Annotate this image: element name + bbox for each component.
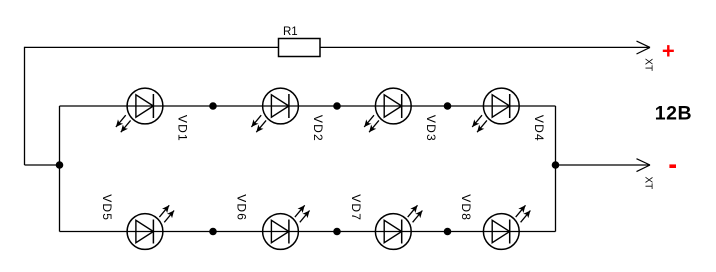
junction top c xyxy=(444,102,452,110)
junction bottom b xyxy=(333,228,341,236)
label minus xyxy=(669,164,676,168)
wire left bus xyxy=(59,106,61,232)
svg-text:VD5: VD5 xyxy=(100,194,114,221)
wire bottom row xyxy=(60,231,556,233)
svg-text:XT: XT xyxy=(643,177,654,190)
svg-text:+: + xyxy=(662,38,675,63)
LED VD6 xyxy=(263,205,310,249)
terminal XT minus arrow xyxy=(637,159,651,172)
wire right bus xyxy=(555,106,557,232)
LED VD1 xyxy=(116,88,163,132)
wire middle left xyxy=(25,164,60,166)
svg-text:VD8: VD8 xyxy=(459,194,473,221)
terminal XT plus arrow xyxy=(637,41,651,54)
LED VD4 xyxy=(472,88,519,132)
resistor R1 xyxy=(279,39,321,57)
svg-text:VD6: VD6 xyxy=(234,194,248,221)
LED VD2 xyxy=(251,88,298,132)
svg-text:XT: XT xyxy=(642,58,653,71)
svg-text:12B: 12B xyxy=(655,102,692,124)
svg-text:VD3: VD3 xyxy=(424,115,438,142)
wire left vertical xyxy=(24,47,26,165)
junction top b xyxy=(333,102,341,110)
svg-text:VD7: VD7 xyxy=(349,194,363,221)
wire top right segment xyxy=(320,46,650,48)
wire middle right xyxy=(556,164,651,166)
LED VD5 xyxy=(127,205,174,249)
svg-text:R1: R1 xyxy=(283,26,298,38)
svg-text:VD1: VD1 xyxy=(176,115,190,142)
wire top row xyxy=(60,105,556,107)
junction top a xyxy=(209,102,217,110)
junction bottom a xyxy=(209,228,217,236)
junction right node xyxy=(552,161,560,169)
svg-text:VD2: VD2 xyxy=(311,115,325,142)
junction left node xyxy=(56,161,64,169)
LED VD3 xyxy=(364,88,411,132)
LED VD8 xyxy=(483,205,530,249)
junction bottom c xyxy=(444,228,452,236)
LED VD7 xyxy=(375,205,422,249)
svg-text:VD4: VD4 xyxy=(532,115,546,142)
wire top left segment xyxy=(25,46,279,48)
